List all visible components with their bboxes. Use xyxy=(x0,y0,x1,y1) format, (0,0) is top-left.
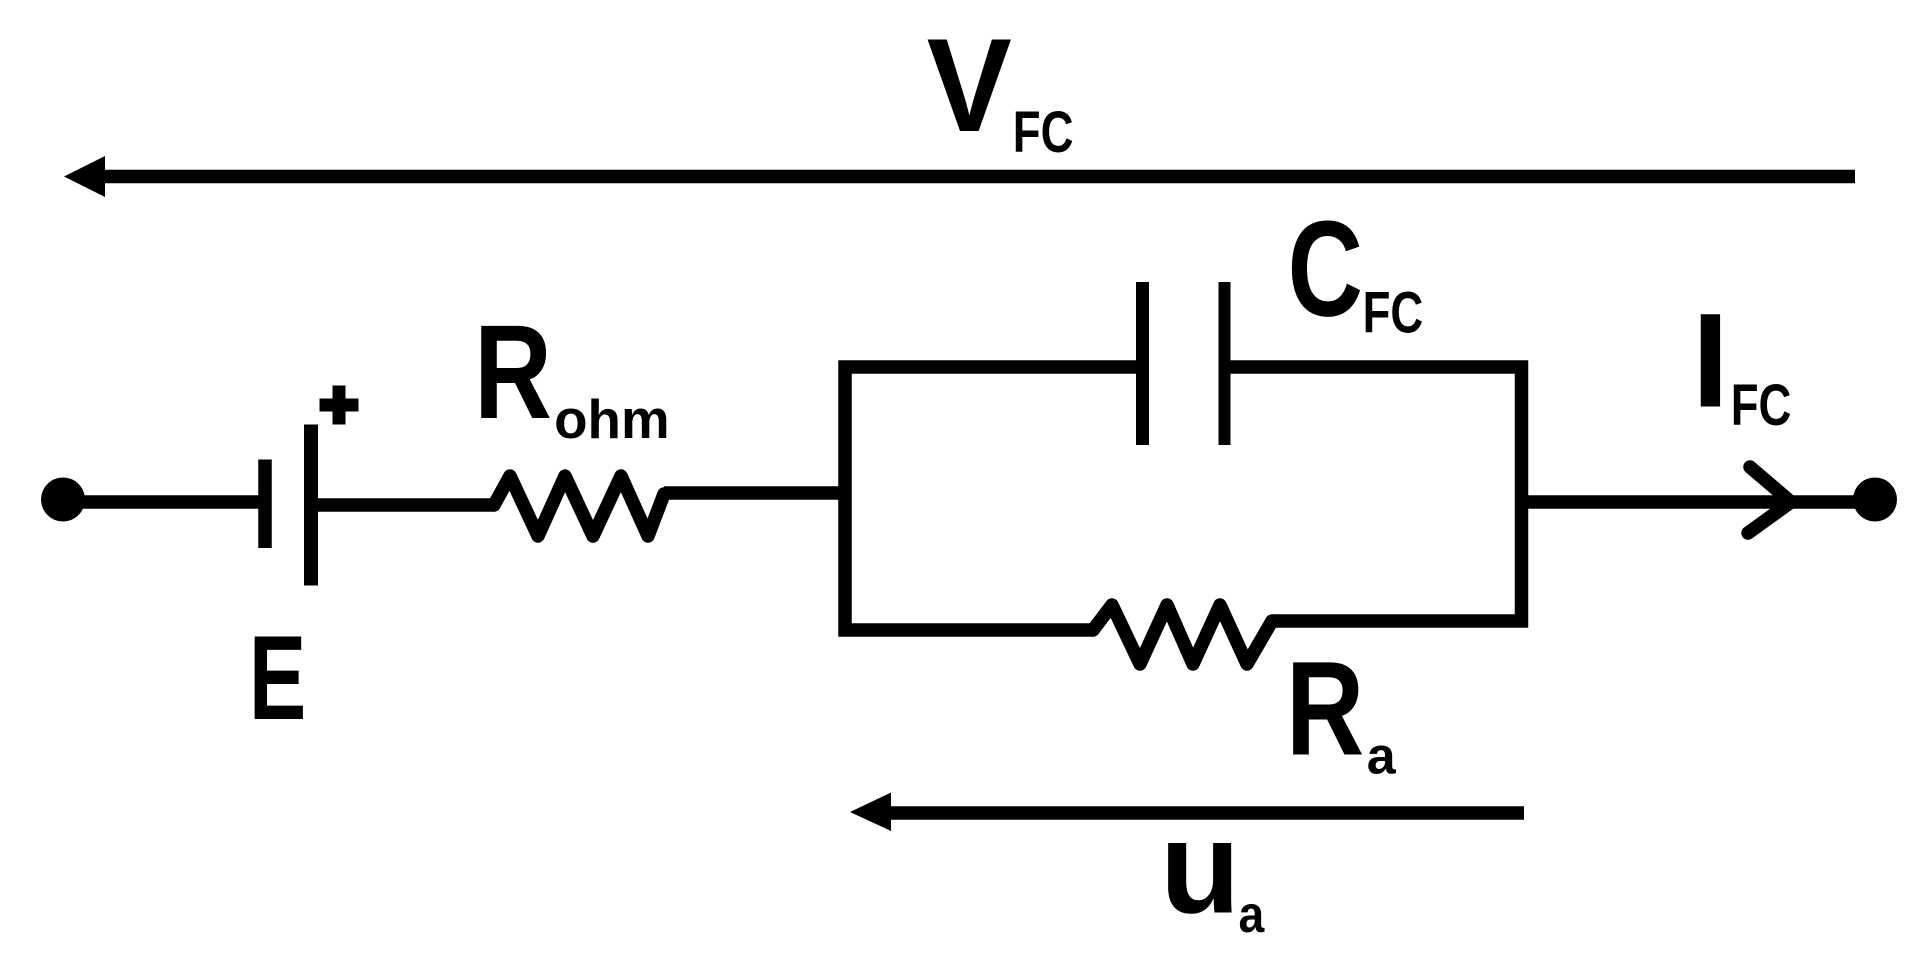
svg-text:I: I xyxy=(1692,287,1729,436)
wire V_FC arrow shaft xyxy=(98,170,1855,184)
node left terminal xyxy=(41,478,85,522)
node right terminal xyxy=(1853,478,1897,522)
capacitor C_FC right plate xyxy=(1219,282,1231,445)
wire block to right terminal xyxy=(1522,495,1859,509)
wire R_ohm to parallel block xyxy=(664,486,845,500)
node V_FC arrowhead xyxy=(64,156,105,197)
wire parallel block left edge xyxy=(838,361,852,637)
svg-text:a: a xyxy=(1367,727,1397,785)
wire parallel block right edge xyxy=(1515,361,1529,628)
node u_a arrowhead xyxy=(850,793,891,832)
battery E plus sign xyxy=(320,386,359,425)
wire parallel block bottom edge left of R_a xyxy=(839,623,1094,637)
wire parallel block bottom edge right of R_a xyxy=(1272,614,1528,628)
capacitor C_FC left plate xyxy=(1136,282,1149,445)
svg-text:FC: FC xyxy=(1731,374,1792,439)
resistor R_a zigzag xyxy=(1093,605,1272,664)
svg-text:ohm: ohm xyxy=(554,388,670,450)
wire u_a arrow shaft xyxy=(885,806,1524,820)
svg-text:E: E xyxy=(249,611,306,745)
resistor R_ohm zigzag xyxy=(494,476,664,536)
svg-text:R: R xyxy=(474,297,552,447)
svg-text:V: V xyxy=(927,11,1012,160)
battery E positive plate xyxy=(304,425,318,586)
wire parallel block top edge right of capacitor xyxy=(1225,360,1529,374)
wire battery to R_ohm xyxy=(311,498,494,512)
battery E negative plate xyxy=(258,460,272,549)
svg-text:C: C xyxy=(1288,192,1363,345)
svg-text:FC: FC xyxy=(1363,281,1424,346)
wire left terminal to battery xyxy=(63,495,259,509)
node I_FC arrowhead chevron xyxy=(1748,467,1791,533)
svg-text:u: u xyxy=(1160,794,1240,941)
svg-text:FC: FC xyxy=(1013,101,1074,166)
svg-text:a: a xyxy=(1239,885,1265,943)
wire parallel block top edge left of capacitor xyxy=(839,360,1143,374)
svg-text:R: R xyxy=(1286,634,1364,783)
